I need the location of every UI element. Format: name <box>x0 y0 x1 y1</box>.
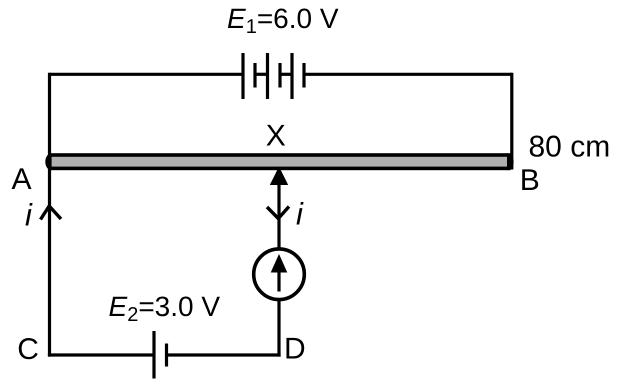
svg-text:80 cm: 80 cm <box>529 131 611 164</box>
current arrow i (up) on left wire <box>41 206 62 220</box>
battery E1 cell2 long plate <box>266 53 269 99</box>
wire left vertical A-C <box>48 73 51 357</box>
potentiometer wire AB (resistance wire) <box>50 155 509 168</box>
wire right vertical to B <box>510 73 513 170</box>
svg-text:A: A <box>12 163 32 196</box>
svg-text:i: i <box>25 198 33 233</box>
galvanometer G circle <box>254 249 305 300</box>
sliding contact arrowhead at X <box>270 167 288 186</box>
battery E2 short plate <box>165 344 168 367</box>
bar left end cap <box>45 153 51 170</box>
battery E1 cell1 short plate <box>253 63 256 88</box>
battery E1 cell1 long plate <box>241 53 244 99</box>
svg-text:C: C <box>17 333 39 366</box>
svg-text:X: X <box>266 120 286 153</box>
svg-text:i: i <box>296 197 304 232</box>
galvanometer arrow shaft <box>277 270 280 292</box>
wire stub cell2-cell3 <box>280 73 292 76</box>
svg-text:D: D <box>284 333 306 366</box>
wire middle vertical upper (galvanometer to arrow) <box>277 183 280 248</box>
wire top-right horizontal <box>304 73 512 76</box>
current arrow i (down) on middle wire <box>267 207 289 219</box>
bar right end cap <box>507 153 513 170</box>
wire middle vertical lower (galvanometer to D) <box>277 301 280 357</box>
svg-text:E2=3.0 V: E2=3.0 V <box>109 291 221 326</box>
wire battery to D <box>167 353 281 356</box>
galvanometer arrowhead <box>271 254 288 273</box>
wire bottom C to battery <box>48 353 154 356</box>
battery E1 cell3 long plate <box>290 53 293 99</box>
svg-text:B: B <box>520 164 540 197</box>
battery E1 cell3 short plate <box>302 63 305 88</box>
battery E2 long plate <box>152 331 155 379</box>
svg-text:E1=6.0 V: E1=6.0 V <box>227 3 339 38</box>
wire stub cell1-cell2 <box>255 73 268 76</box>
wire top-left horizontal <box>50 73 244 76</box>
battery E1 cell2 short plate <box>278 63 281 88</box>
